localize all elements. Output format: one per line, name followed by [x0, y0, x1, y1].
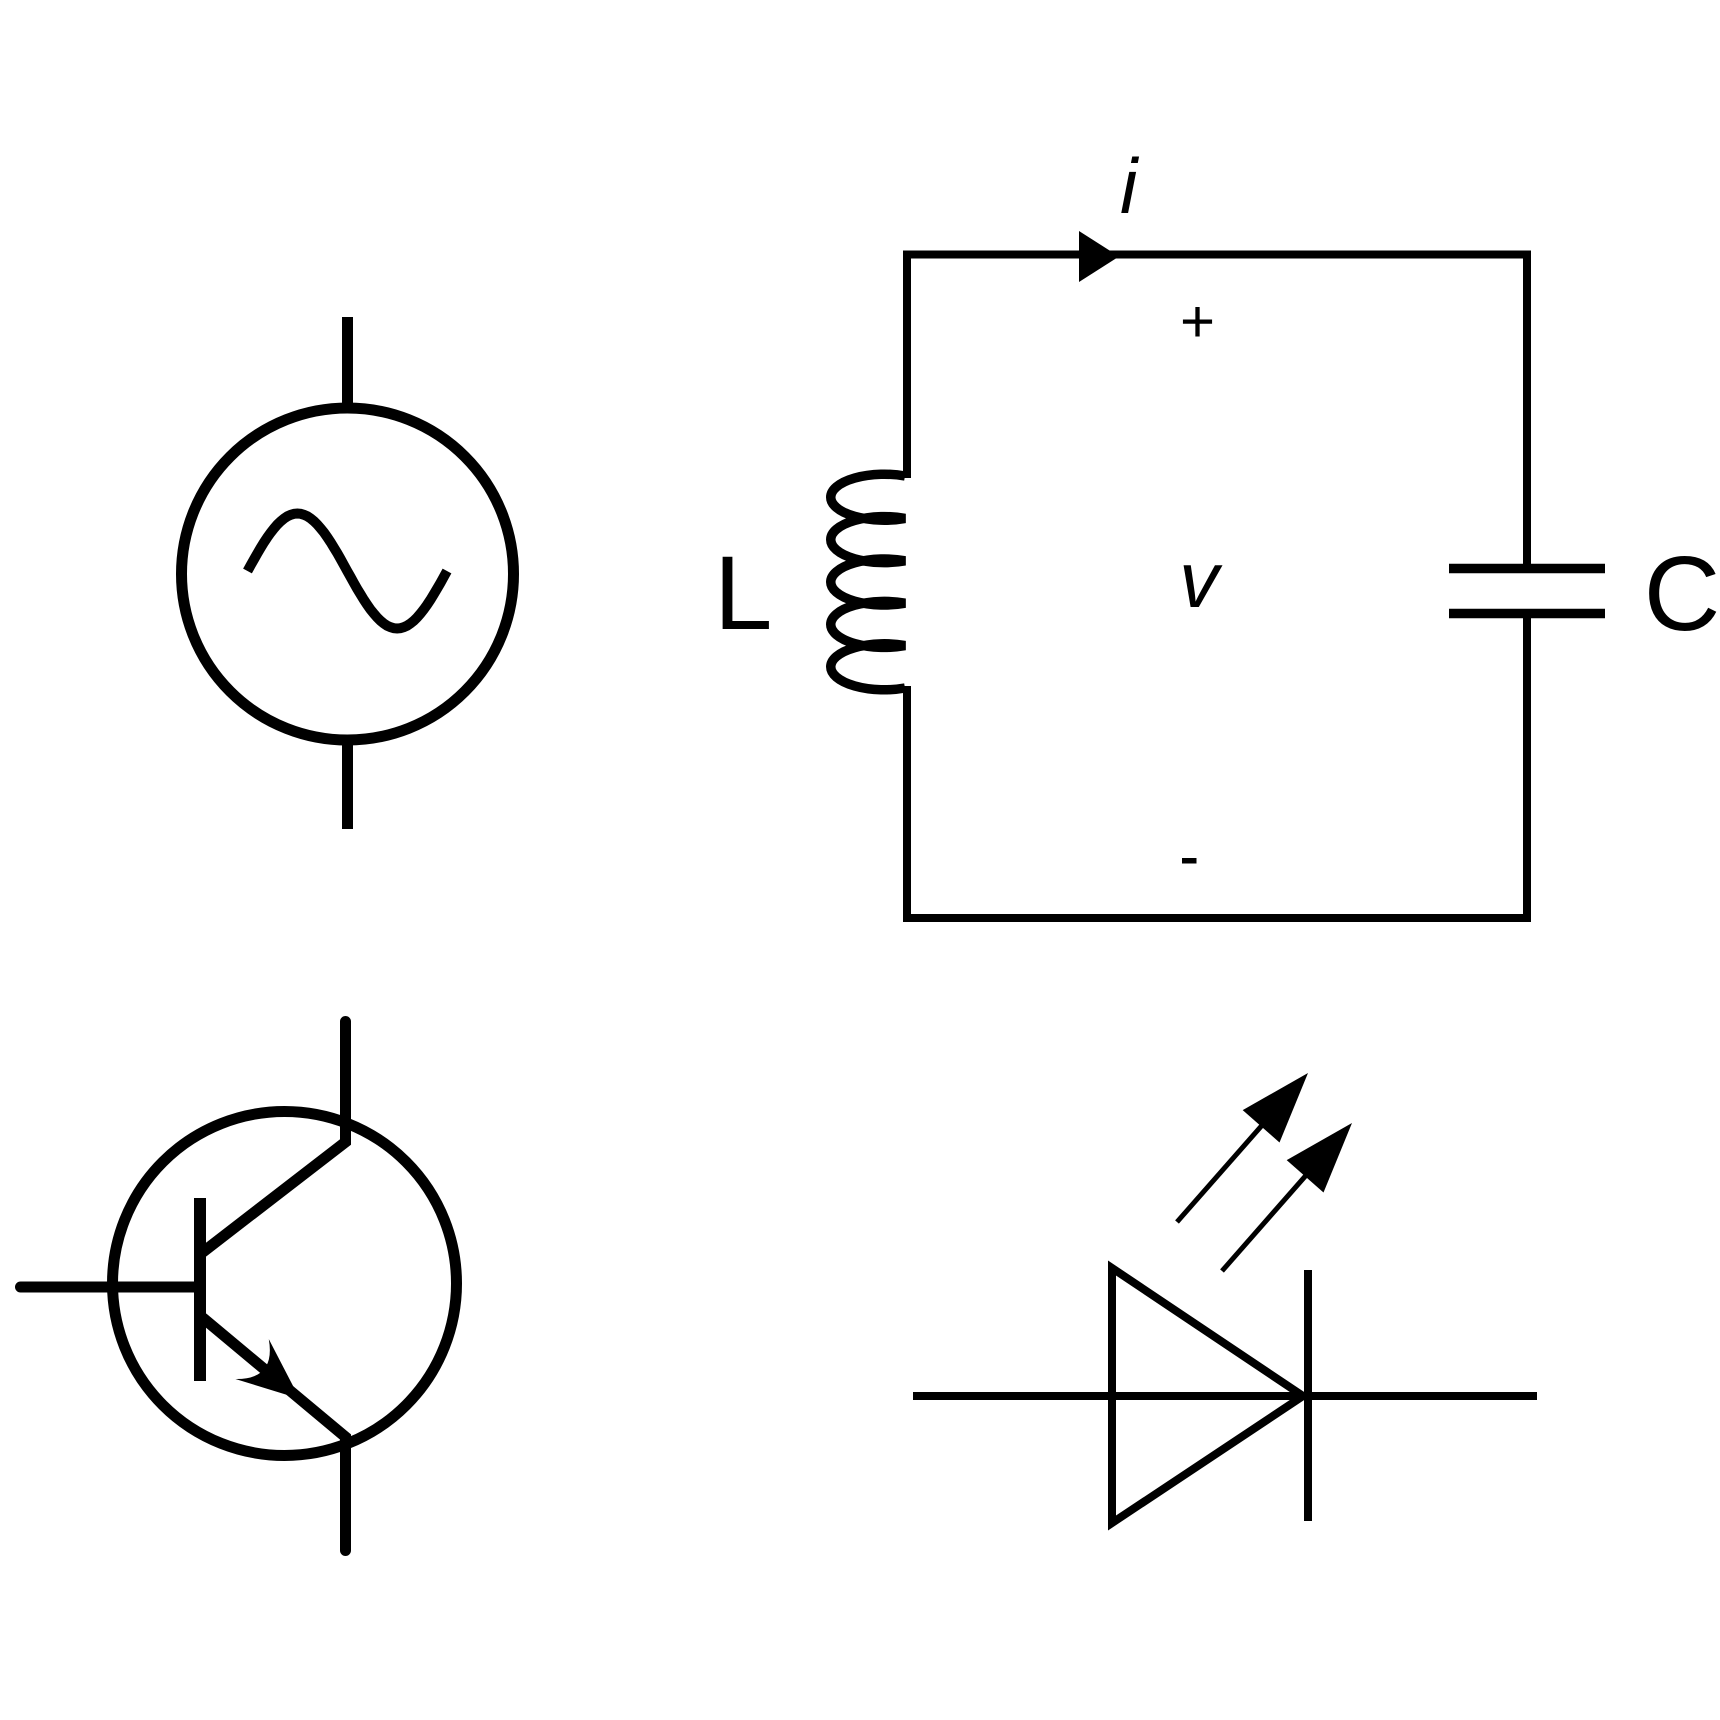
collector lead and diagonal	[203, 1022, 346, 1253]
LED light arrow 1 head	[1243, 1073, 1308, 1143]
label -	[1182, 858, 1197, 864]
emitter arrowhead	[235, 1339, 299, 1399]
AC source	[182, 317, 514, 829]
capacitor C top plate	[1449, 564, 1605, 574]
wire bottom lead of AC source	[342, 742, 353, 829]
LED D1	[913, 1268, 1537, 1523]
wire top-left segment	[907, 255, 1527, 565]
svg-text:C: C	[1644, 535, 1720, 653]
svg-text:i: i	[1120, 142, 1140, 230]
base bar	[194, 1198, 206, 1381]
LC circuit loop	[907, 255, 1527, 919]
base lead	[21, 1282, 201, 1293]
AC source sine wave	[248, 514, 448, 629]
wire bottom segment	[907, 618, 1527, 918]
svg-text:v: v	[1179, 535, 1223, 624]
emitter diagonal and lead	[203, 1318, 346, 1551]
transistor circle	[113, 1112, 457, 1456]
LED light arrow 2 head	[1287, 1123, 1352, 1193]
current arrow i on top wire	[1079, 231, 1119, 282]
svg-text:L: L	[714, 535, 772, 652]
AC source circle	[182, 408, 514, 740]
inductor L coil	[831, 474, 905, 690]
LED wire	[913, 1392, 1537, 1400]
svg-text:+: +	[1180, 288, 1215, 355]
capacitor C bottom plate	[1449, 609, 1605, 619]
LED light arrow 1 shaft	[1177, 1114, 1272, 1222]
LED light arrow 2 shaft	[1222, 1164, 1316, 1271]
LED cathode bar	[1304, 1270, 1312, 1521]
LED triangle anode	[1112, 1268, 1303, 1523]
wire top lead of AC source	[342, 317, 353, 406]
transistor Q1	[21, 1022, 457, 1551]
